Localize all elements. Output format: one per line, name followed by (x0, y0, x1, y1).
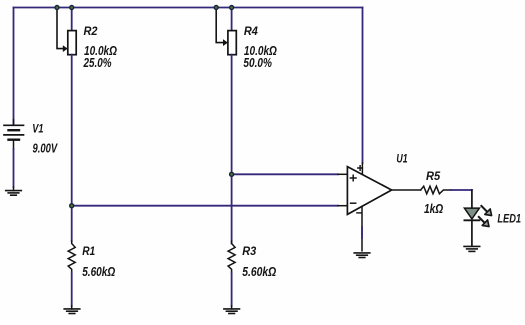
ground (R3) (224, 309, 240, 314)
LED1 emission arrow 1 (481, 206, 491, 216)
node junction dot (rail / R2 top) (70, 6, 74, 10)
wire LED anode drop (471, 190, 473, 208)
svg-text:R1: R1 (82, 244, 95, 258)
wire top rail to op-amp positive supply (362, 8, 364, 164)
ground (LED) (464, 246, 480, 251)
potentiometer R2 wiper arrow (63, 45, 68, 52)
ground (R1) (64, 309, 80, 314)
wire battery to ground (13, 149, 15, 187)
wire R4 bottom through node B to R3 (231, 55, 233, 244)
node junction dot B (R4/R3 divider tap) (230, 172, 234, 176)
node junction dot (rail / R4 top) (230, 6, 234, 10)
ground (op-amp) (354, 253, 370, 258)
node junction dot A (R2/R1 divider tap) (70, 204, 74, 208)
wire R4 wiper drop (216, 9, 223, 43)
svg-text:9.00V: 9.00V (33, 142, 59, 156)
wire R1 to ground (71, 273, 73, 307)
potentiometer R4 body (228, 31, 236, 55)
svg-text:25.0%: 25.0% (83, 56, 112, 70)
LED1 diode (464, 208, 479, 219)
svg-text:5.60kΩ: 5.60kΩ (82, 265, 115, 279)
potentiometer R2 body (68, 31, 76, 55)
svg-text:50.0%: 50.0% (243, 56, 272, 70)
wire R2 top drop (71, 8, 73, 31)
ground (battery) (6, 191, 22, 196)
potentiometer R4 wiper arrow (223, 39, 228, 46)
wire op-amp output to R5 (392, 189, 421, 191)
node junction dot (rail / R4 wiper) (214, 6, 218, 10)
wire R2 wiper drop (57, 9, 63, 49)
wire op-amp negative supply to ground (361, 207, 363, 251)
svg-text:V1: V1 (32, 121, 43, 135)
wire left rail to battery (13, 8, 15, 124)
wire top rail (14, 7, 363, 9)
resistor R5 (421, 186, 451, 194)
svg-text:R4: R4 (244, 24, 258, 38)
svg-text:R2: R2 (84, 24, 98, 38)
wire R2 bottom to node A (71, 55, 73, 206)
svg-text:R5: R5 (426, 169, 440, 183)
wire node A to op-amp inverting input (72, 205, 338, 207)
svg-text:U1: U1 (396, 151, 407, 165)
op-amp plus input mark (350, 175, 356, 181)
resistor R3 (228, 241, 235, 273)
wire R4 top drop (231, 8, 233, 31)
svg-text:R3: R3 (242, 244, 256, 258)
node junction dot (rail / R2 wiper) (55, 6, 59, 10)
LED1 cathode bar (464, 219, 479, 221)
wire R5 to LED (451, 189, 472, 191)
svg-text:5.60kΩ: 5.60kΩ (242, 265, 276, 279)
wire R3 to ground (231, 273, 233, 307)
wire node A down to R1 (71, 206, 73, 241)
wire LED cathode to ground (471, 220, 473, 246)
battery V1 (4, 120, 24, 150)
wire node B to op-amp non-inverting input (232, 173, 338, 175)
op-amp minus input mark (351, 202, 356, 204)
op-amp plus supply mark (358, 166, 363, 171)
svg-text:1kΩ: 1kΩ (424, 202, 443, 216)
op-amp minus supply mark (357, 212, 362, 214)
op-amp U1 (347, 167, 391, 215)
svg-text:LED1: LED1 (497, 212, 521, 226)
LED1 emission arrow 2 (479, 217, 489, 227)
resistor R1 (68, 241, 75, 273)
